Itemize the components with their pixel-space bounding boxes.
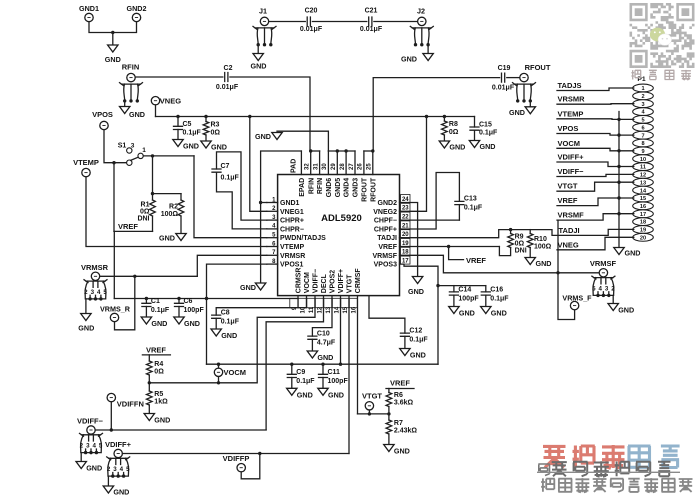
svg-text:GND: GND — [255, 132, 271, 141]
svg-text:GND: GND — [394, 447, 410, 456]
wire — [257, 45, 259, 54]
svg-text:GND: GND — [317, 353, 333, 362]
capacitor C9 — [287, 364, 315, 388]
capacitor C6 — [175, 298, 205, 317]
wire — [216, 296, 306, 316]
svg-text:5: 5 — [592, 285, 596, 292]
svg-text:4: 4 — [92, 443, 96, 450]
IC U1 ADL5920 — [267, 151, 410, 313]
svg-text:32: 32 — [305, 163, 311, 170]
svg-text:0.01μF: 0.01μF — [300, 26, 323, 33]
svg-text:4: 4 — [120, 466, 124, 473]
svg-text:C1: C1 — [151, 298, 160, 305]
wire — [86, 177, 267, 247]
svg-text:3: 3 — [86, 443, 90, 450]
svg-text:C15: C15 — [479, 122, 492, 129]
ground — [173, 140, 199, 151]
wire — [85, 299, 87, 314]
svg-text:100pF: 100pF — [458, 296, 479, 303]
connector RFIN — [120, 63, 143, 103]
svg-text:GND: GND — [184, 319, 200, 328]
svg-text:VREF: VREF — [390, 379, 410, 388]
svg-text:VRMSR: VRMSR — [280, 253, 305, 260]
svg-text:GND3: GND3 — [353, 178, 360, 198]
wire — [95, 428, 266, 431]
switch S1 — [118, 143, 146, 166]
wire — [277, 131, 355, 153]
svg-text:GND: GND — [151, 319, 167, 328]
svg-text:GND: GND — [105, 55, 121, 64]
capacitor C2 — [216, 65, 239, 91]
svg-text:8: 8 — [641, 141, 644, 147]
ground — [144, 414, 170, 425]
svg-text:C20: C20 — [305, 8, 318, 15]
svg-text:EPAD: EPAD — [299, 178, 306, 197]
svg-text:VREF: VREF — [378, 244, 397, 251]
wire — [89, 22, 137, 45]
wire — [369, 296, 405, 334]
svg-text:C2: C2 — [224, 65, 233, 72]
svg-text:VDIFF−: VDIFF− — [558, 167, 585, 176]
svg-text:CHPF−: CHPF− — [374, 218, 397, 225]
svg-text:6: 6 — [641, 125, 644, 131]
svg-text:VDIFF+: VDIFF+ — [338, 269, 345, 293]
svg-text:15: 15 — [343, 306, 349, 313]
svg-text:TADJI: TADJI — [559, 226, 580, 235]
node VTEMP wire — [557, 109, 634, 119]
svg-text:1: 1 — [641, 86, 644, 92]
watermark text 2 — [538, 461, 670, 477]
ground — [287, 388, 313, 399]
capacitor C7 — [212, 163, 240, 182]
wire — [259, 151, 302, 283]
svg-text:13: 13 — [326, 306, 332, 313]
capacitor C5 — [174, 117, 202, 140]
svg-text:C5: C5 — [183, 121, 192, 128]
svg-text:GND2: GND2 — [378, 200, 398, 207]
node VTEMP — [73, 158, 99, 177]
connector VRMSF — [590, 259, 617, 297]
wire — [400, 173, 460, 230]
ground — [201, 141, 227, 152]
wire — [217, 152, 267, 220]
svg-text:C9: C9 — [296, 369, 305, 376]
svg-text:VTEMP: VTEMP — [73, 158, 99, 167]
ground — [103, 486, 129, 497]
svg-text:VNEG: VNEG — [558, 240, 579, 249]
svg-text:C8: C8 — [221, 310, 230, 317]
svg-text:VPOS: VPOS — [558, 124, 579, 133]
svg-text:VRSMF: VRSMF — [558, 211, 585, 220]
svg-text:R9: R9 — [515, 234, 524, 241]
svg-text:C14: C14 — [458, 287, 471, 294]
svg-text:0.01μF: 0.01μF — [360, 26, 383, 33]
svg-text:11: 11 — [640, 165, 646, 171]
capacitor C1 — [142, 298, 170, 317]
svg-text:29: 29 — [331, 163, 337, 170]
wire — [529, 101, 531, 107]
svg-text:RFIN: RFIN — [308, 178, 315, 194]
svg-text:VOCM: VOCM — [558, 139, 581, 148]
svg-text:VDIFF−: VDIFF− — [313, 269, 320, 293]
wire — [156, 105, 475, 118]
svg-text:GND: GND — [491, 309, 507, 318]
QR code watermark — [630, 3, 695, 68]
wire — [153, 216, 182, 234]
svg-text:GND: GND — [410, 351, 426, 360]
node VNEG wire — [557, 237, 634, 250]
svg-text:0.1μF: 0.1μF — [221, 319, 240, 326]
svg-text:19: 19 — [640, 228, 646, 234]
svg-text:0.01μF: 0.01μF — [216, 84, 239, 91]
svg-text:VDIFFN: VDIFFN — [117, 400, 144, 409]
svg-text:R4: R4 — [154, 361, 163, 368]
svg-text:PAD: PAD — [291, 159, 298, 173]
svg-text:0Ω: 0Ω — [154, 369, 164, 376]
ground — [240, 283, 266, 292]
resistor R9 — [508, 230, 527, 255]
svg-text:VRMSR: VRMSR — [81, 263, 109, 272]
svg-text:R8: R8 — [449, 121, 458, 128]
svg-text:1kΩ: 1kΩ — [154, 399, 168, 406]
node VNEG — [151, 96, 181, 105]
ground — [318, 388, 344, 399]
svg-text:VTGT: VTGT — [362, 392, 382, 401]
svg-text:VDIFFP: VDIFFP — [223, 454, 250, 463]
svg-text:R1: R1 — [141, 202, 150, 209]
svg-text:GND: GND — [401, 55, 417, 64]
svg-text:VRMSF: VRMSF — [590, 259, 617, 268]
svg-text:2: 2 — [641, 94, 644, 100]
ground — [614, 248, 641, 258]
svg-text:C19: C19 — [498, 65, 511, 72]
wire — [358, 412, 391, 415]
wire — [400, 255, 600, 274]
resistor R4 — [147, 355, 165, 376]
svg-text:0.1μF: 0.1μF — [183, 130, 202, 137]
wire — [113, 231, 115, 298]
svg-text:R7: R7 — [394, 420, 403, 427]
ground — [401, 54, 433, 64]
svg-text:R6: R6 — [394, 392, 403, 399]
node VDIFF+ wire — [557, 153, 634, 167]
node VRSMF wire — [557, 211, 634, 221]
svg-text:DNI: DNI — [515, 248, 527, 255]
wire — [135, 76, 223, 78]
node VTGT wire — [557, 182, 634, 192]
wire — [400, 203, 418, 277]
node VOCM — [214, 364, 246, 383]
wire — [357, 296, 359, 414]
svg-text:GND: GND — [154, 416, 170, 425]
node VOCM wire — [557, 139, 634, 151]
svg-text:VREF: VREF — [466, 256, 486, 265]
svg-text:4: 4 — [97, 289, 101, 296]
svg-text:GND: GND — [618, 306, 634, 315]
wire — [400, 245, 500, 248]
wire — [148, 296, 315, 385]
capacitor C20 — [300, 8, 323, 34]
ground — [449, 307, 475, 318]
svg-text:12: 12 — [640, 173, 646, 179]
wire — [388, 407, 390, 421]
svg-text:VREF: VREF — [558, 196, 578, 205]
svg-text:CHPR−: CHPR− — [280, 226, 304, 233]
svg-text:GND: GND — [625, 249, 641, 258]
svg-text:C13: C13 — [464, 196, 477, 203]
svg-text:R2: R2 — [169, 204, 178, 211]
node VRMS_F — [562, 294, 592, 310]
svg-text:0Ω: 0Ω — [140, 209, 150, 216]
wire — [122, 452, 349, 455]
ground — [174, 317, 200, 328]
svg-text:30: 30 — [322, 163, 328, 170]
node VREF — [386, 379, 414, 389]
svg-text:5: 5 — [103, 289, 107, 296]
svg-text:3: 3 — [113, 466, 117, 473]
wire — [309, 149, 320, 152]
svg-text:PWDN/TADJS: PWDN/TADJS — [280, 235, 326, 242]
svg-text:VTGT: VTGT — [347, 274, 354, 293]
resistor R3 — [203, 117, 220, 142]
resistor R7 — [386, 420, 417, 435]
ground — [608, 304, 634, 315]
ground — [481, 307, 507, 318]
svg-text:J2: J2 — [417, 7, 425, 16]
svg-text:26: 26 — [358, 163, 364, 170]
svg-text:VTEMP: VTEMP — [558, 109, 584, 118]
svg-text:GND6: GND6 — [326, 178, 333, 198]
svg-text:CHPR+: CHPR+ — [280, 218, 304, 225]
svg-text:GND: GND — [183, 142, 199, 151]
svg-text:0.01μF: 0.01μF — [492, 85, 515, 92]
svg-text:3: 3 — [605, 285, 609, 292]
svg-text:DECL: DECL — [321, 273, 328, 293]
svg-text:RFIN: RFIN — [122, 63, 140, 72]
capacitor C16 — [481, 286, 509, 307]
svg-text:0.1μF: 0.1μF — [490, 296, 509, 303]
svg-text:0.1μF: 0.1μF — [296, 378, 315, 385]
ground — [469, 141, 495, 152]
watermark logo text — [543, 445, 680, 468]
connector J1 — [253, 7, 276, 47]
wire — [269, 21, 306, 23]
svg-text:RFOUT: RFOUT — [362, 177, 369, 202]
svg-text:GND: GND — [536, 259, 552, 268]
node VDIFFP — [223, 454, 260, 479]
svg-text:TADJI: TADJI — [377, 235, 397, 242]
watermark text weixin — [631, 70, 691, 80]
wire — [617, 112, 620, 248]
ground — [400, 349, 426, 360]
node VPOS wire — [557, 124, 634, 135]
resistor R1 — [137, 200, 155, 223]
svg-text:RFOUT: RFOUT — [525, 63, 551, 72]
node VDIFFN — [107, 393, 144, 430]
wire — [250, 117, 267, 212]
svg-text:R3: R3 — [211, 122, 220, 129]
svg-text:GND: GND — [159, 234, 175, 243]
svg-text:C10: C10 — [317, 331, 330, 338]
wire — [557, 220, 559, 273]
wire — [80, 453, 82, 462]
ground — [251, 54, 267, 71]
wire — [151, 192, 181, 200]
svg-text:VDIFF+: VDIFF+ — [105, 440, 132, 449]
capacitor C8 — [212, 310, 240, 330]
svg-text:C7: C7 — [221, 163, 230, 170]
svg-text:ADL5920: ADL5920 — [321, 213, 362, 224]
node VRSMR wire — [557, 95, 634, 105]
ground — [211, 329, 237, 340]
svg-text:14: 14 — [335, 306, 341, 313]
svg-text:GND: GND — [221, 331, 237, 340]
svg-text:0.1μF: 0.1μF — [151, 307, 170, 314]
svg-text:2: 2 — [84, 289, 88, 296]
svg-text:25: 25 — [367, 163, 373, 170]
svg-text:5: 5 — [99, 443, 103, 450]
wire — [100, 255, 267, 278]
svg-text:VPOS3: VPOS3 — [374, 262, 397, 269]
wire — [339, 296, 342, 366]
resistor R10 — [527, 230, 551, 251]
svg-text:5: 5 — [126, 466, 130, 473]
wire — [148, 375, 150, 391]
svg-text:1: 1 — [142, 147, 146, 154]
svg-text:0Ω: 0Ω — [211, 130, 221, 137]
svg-text:GND: GND — [211, 143, 227, 152]
wire — [115, 276, 135, 330]
svg-text:15: 15 — [640, 196, 646, 202]
svg-text:9: 9 — [641, 149, 644, 155]
svg-text:CHPF+: CHPF+ — [374, 226, 397, 233]
ground — [509, 107, 535, 117]
node VPOS — [92, 110, 113, 130]
svg-text:16: 16 — [640, 204, 646, 210]
ground — [141, 317, 167, 328]
node VTGT — [362, 392, 382, 414]
wire — [558, 273, 575, 320]
wire — [124, 101, 126, 107]
wire — [107, 476, 109, 486]
svg-text:18: 18 — [640, 220, 646, 226]
svg-text:VREF: VREF — [146, 346, 166, 355]
node VREF — [142, 346, 170, 355]
svg-text:3: 3 — [91, 289, 95, 296]
svg-text:J1: J1 — [259, 7, 267, 16]
svg-text:100pF: 100pF — [184, 307, 205, 314]
wire — [266, 296, 323, 430]
ground — [76, 462, 102, 473]
wire — [400, 228, 531, 238]
ground — [408, 277, 424, 297]
svg-text:0.1μF: 0.1μF — [409, 337, 428, 344]
svg-text:RFIN: RFIN — [317, 178, 324, 194]
svg-text:VPOS: VPOS — [92, 110, 113, 119]
wire — [113, 163, 115, 232]
svg-text:VRMS_R: VRMS_R — [100, 305, 131, 314]
svg-text:GND: GND — [113, 488, 129, 497]
svg-text:VRMS_F: VRMS_F — [562, 294, 592, 303]
svg-text:C11: C11 — [328, 369, 341, 376]
svg-text:2.43kΩ: 2.43kΩ — [394, 428, 418, 435]
svg-text:GND: GND — [86, 464, 102, 473]
svg-text:C21: C21 — [365, 8, 378, 15]
svg-text:VTEMP: VTEMP — [280, 244, 304, 251]
capacitor C15 — [470, 117, 498, 141]
svg-text:GND1: GND1 — [79, 4, 99, 13]
capacitor C19 — [492, 65, 515, 92]
svg-text:GND: GND — [240, 283, 256, 292]
wire — [217, 172, 267, 229]
svg-text:GND: GND — [449, 143, 465, 152]
wire — [114, 296, 298, 301]
svg-text:GND: GND — [509, 108, 525, 117]
wire — [400, 264, 486, 364]
svg-text:GND: GND — [459, 309, 475, 318]
wire — [348, 296, 350, 454]
capacitor C13 — [455, 196, 483, 212]
ground — [120, 107, 145, 120]
svg-text:VDIFF+: VDIFF+ — [558, 153, 585, 162]
svg-text:VTGT: VTGT — [558, 182, 578, 191]
wire — [400, 117, 427, 212]
wire — [388, 434, 390, 445]
resistor R5 — [147, 391, 169, 406]
svg-text:100pF: 100pF — [328, 378, 349, 385]
wire — [104, 130, 127, 165]
wire — [143, 154, 266, 238]
svg-text:GND5: GND5 — [335, 178, 342, 198]
svg-text:11: 11 — [309, 306, 315, 313]
connector P1 — [633, 76, 654, 242]
capacitor C12 — [400, 328, 428, 349]
capacitor C10 — [308, 331, 336, 352]
svg-text:C16: C16 — [490, 287, 503, 294]
resistor R2 — [161, 200, 184, 218]
wire — [364, 149, 375, 152]
svg-text:20: 20 — [640, 235, 646, 241]
wire — [374, 21, 418, 23]
svg-text:R5: R5 — [154, 391, 163, 398]
resistor R8 — [442, 117, 459, 142]
connector VDIFF- — [77, 417, 104, 455]
wire — [207, 264, 267, 298]
resistor R6 — [386, 389, 413, 407]
connector RFOUT — [513, 63, 551, 103]
svg-text:C6: C6 — [184, 298, 193, 305]
svg-text:0Ω: 0Ω — [449, 129, 459, 136]
ground — [105, 45, 121, 64]
watermark text 3 — [541, 478, 692, 492]
connector J2 — [410, 7, 433, 47]
svg-text:27: 27 — [349, 163, 355, 170]
svg-text:0Ω: 0Ω — [515, 241, 525, 248]
ground — [159, 234, 186, 243]
wire — [427, 45, 429, 54]
svg-text:5: 5 — [641, 118, 644, 124]
svg-text:3: 3 — [131, 143, 135, 150]
svg-text:2: 2 — [80, 443, 84, 450]
ground — [307, 351, 333, 362]
capacitor C21 — [360, 8, 383, 34]
svg-text:P1: P1 — [637, 76, 646, 83]
svg-text:28: 28 — [340, 163, 346, 170]
svg-text:31: 31 — [313, 163, 319, 170]
capacitor C11 — [319, 364, 349, 388]
connector GND2 — [127, 4, 147, 22]
svg-text:RFOUT: RFOUT — [370, 177, 377, 202]
